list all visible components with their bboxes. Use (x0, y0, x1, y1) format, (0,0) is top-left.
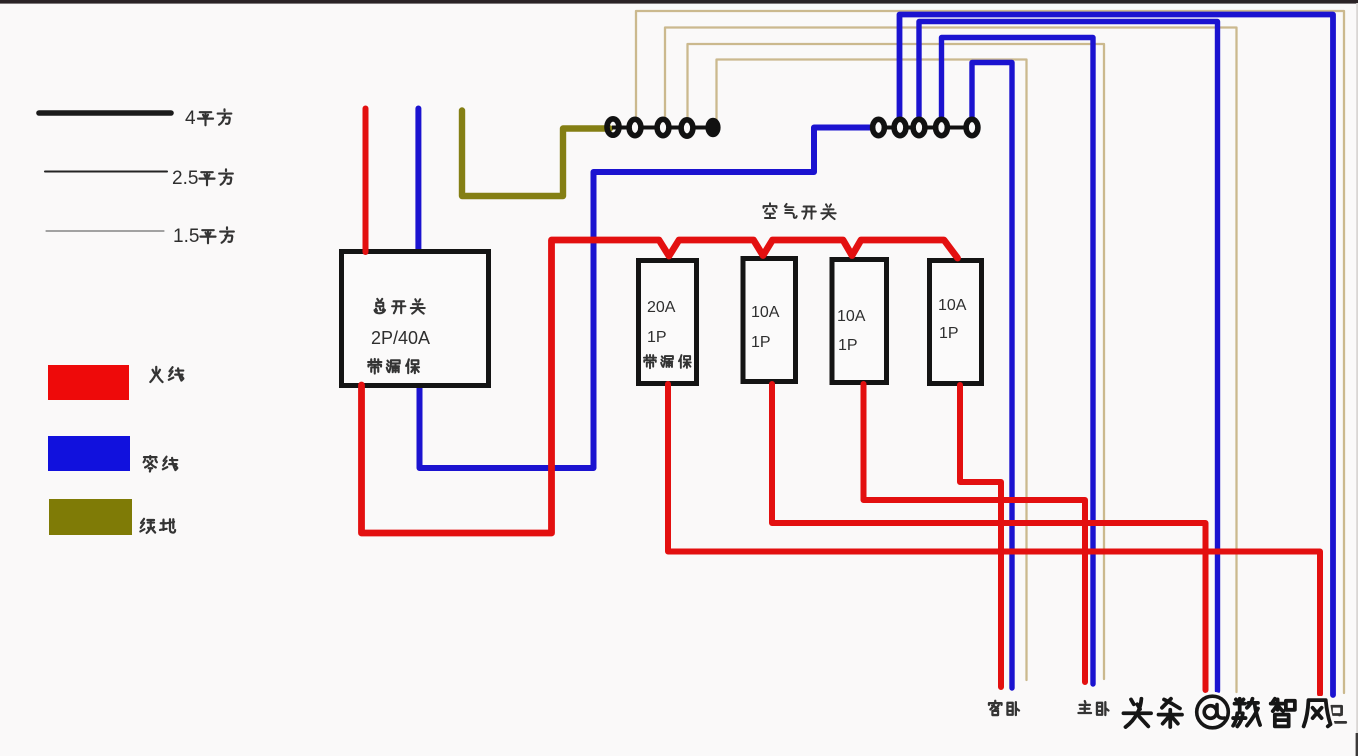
legend line 2.5mm2 (45, 170, 167, 172)
ground tan wire 3 (688, 44, 1105, 679)
live wire main run + bus with V-dips (362, 240, 958, 533)
text 空气开关 (air switch title) (764, 203, 777, 218)
neutral bus terminal 5 (966, 119, 978, 135)
neutral branch 2 (919, 22, 1218, 692)
text 卫 (1328, 706, 1345, 722)
svg-text:4: 4 (185, 108, 196, 129)
ground bus terminal 1 (607, 119, 619, 135)
svg-text:1P: 1P (939, 325, 959, 342)
live branch from breaker 2 (772, 384, 1206, 690)
text 主卧 (1078, 701, 1091, 713)
breaker box 1 (20A) (639, 261, 697, 384)
svg-text:1P: 1P (751, 334, 771, 351)
text 总开关 (main box) (375, 299, 386, 313)
text 客卧 (989, 701, 1002, 715)
ink (1123, 699, 1330, 727)
neutral bus terminal 2 (894, 119, 906, 135)
right edge dark segment bottom (1356, 733, 1358, 756)
legend swatch ground olive (49, 499, 132, 535)
neutral branch 1 (900, 15, 1334, 696)
legend swatch neutral blue (48, 436, 130, 471)
text 零线 (144, 456, 157, 472)
text 带漏保 (breaker1) (644, 355, 656, 368)
svg-text:2P/40A: 2P/40A (371, 328, 430, 348)
breaker box 2 (10A) (743, 259, 796, 382)
breaker box 3 (10A) (832, 260, 887, 383)
breaker box 4 (10A) (930, 261, 982, 384)
legend line 4mm2 (39, 110, 171, 116)
text 绿地 (140, 519, 155, 533)
CJK texts as glyph uses (140, 109, 1345, 722)
text 带漏保 (main box) (368, 359, 381, 374)
top dark frame bar (0, 0, 1358, 4)
neutral bus terminal 4 (936, 119, 948, 135)
neutral branch 3 (942, 38, 1094, 685)
ground tan wire 4 (717, 60, 1027, 681)
text 4平方 (198, 112, 213, 125)
neutral wire incoming top (415, 109, 421, 253)
neutral bus terminal 3 (913, 119, 925, 135)
ground bus terminal 3 (657, 119, 669, 135)
ground tan wire 2 (665, 28, 1237, 693)
legend swatch live red (48, 365, 129, 400)
neutral bus bar (874, 126, 976, 130)
legend line 1.5mm2 (46, 230, 164, 232)
svg-text:10A: 10A (938, 297, 967, 314)
neutral bus terminal 1 (873, 119, 885, 135)
ground bus bar (612, 126, 714, 130)
live branch from breaker 4 (960, 385, 1001, 687)
svg-text:1P: 1P (838, 337, 858, 354)
ground olive wire (462, 111, 610, 197)
live branch from breaker 3 (864, 384, 1086, 682)
svg-text:10A: 10A (751, 304, 780, 321)
ground bus terminal 5 (707, 120, 718, 136)
svg-text:2.5: 2.5 (172, 168, 198, 189)
main breaker box (342, 252, 489, 386)
neutral branch 4 (972, 63, 1012, 689)
right edge faint line (1356, 3, 1358, 733)
text 1.5平方 (200, 230, 215, 243)
ground bus terminal 2 (629, 119, 641, 135)
live branch from breaker 1 (668, 384, 1320, 694)
white halo (1123, 699, 1330, 727)
ground tan wire 1 (636, 11, 1344, 693)
live wire incoming top (363, 109, 369, 253)
text 火线 (150, 367, 162, 382)
text 2.5平方 (199, 172, 214, 185)
svg-text:10A: 10A (837, 308, 866, 325)
ground bus terminal 4 (681, 120, 693, 136)
svg-text:1.5: 1.5 (173, 226, 199, 247)
neutral wire main to bus (420, 128, 873, 469)
svg-text:20A: 20A (647, 299, 676, 316)
svg-text:1P: 1P (647, 329, 667, 346)
